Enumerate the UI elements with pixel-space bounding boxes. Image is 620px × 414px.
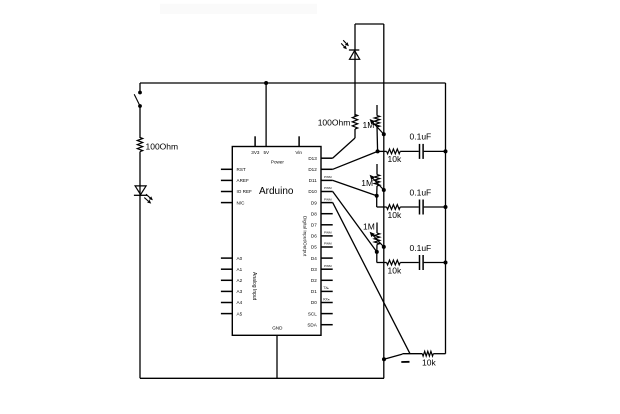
svg-text:D5: D5 [311,245,317,250]
svg-text:0.1uF: 0.1uF [410,243,432,253]
svg-text:10k: 10k [388,154,402,164]
svg-text:A2: A2 [237,278,243,283]
svg-text:1M: 1M [363,120,375,130]
svg-text:Analog Input: Analog Input [251,272,257,301]
svg-text:Power: Power [271,159,284,164]
svg-text:TX▸: TX▸ [323,286,329,290]
svg-text:AREF: AREF [237,178,249,183]
svg-text:D13: D13 [308,156,317,161]
svg-text:D8: D8 [311,211,317,216]
svg-text:PWM: PWM [324,186,332,190]
svg-text:PWM: PWM [324,175,332,179]
svg-text:A0: A0 [237,256,243,261]
svg-text:RX◂: RX◂ [323,297,329,301]
svg-text:SCL: SCL [308,311,317,316]
svg-text:5V: 5V [263,150,270,155]
svg-text:3V3: 3V3 [251,150,260,155]
svg-text:A3: A3 [237,289,243,294]
svg-text:10k: 10k [422,358,436,368]
svg-text:10k: 10k [388,266,402,276]
svg-text:A4: A4 [237,300,243,305]
svg-text:D4: D4 [311,256,317,261]
svg-text:PWM: PWM [324,264,332,268]
svg-text:D1: D1 [311,289,317,294]
svg-text:100Ohm: 100Ohm [318,117,351,127]
svg-text:PWM: PWM [324,231,332,235]
svg-text:GND: GND [272,325,283,330]
svg-text:1M: 1M [361,178,373,188]
svg-text:10k: 10k [388,210,402,220]
svg-text:Vin: Vin [295,150,302,155]
svg-text:A5: A5 [237,311,243,316]
svg-text:D0: D0 [311,300,317,305]
svg-text:SDA: SDA [307,322,317,327]
svg-text:100Ohm: 100Ohm [146,142,179,152]
svg-text:D10: D10 [308,189,317,194]
svg-text:D11: D11 [309,178,318,183]
svg-text:0.1uF: 0.1uF [410,187,432,197]
svg-text:PWM: PWM [324,197,332,201]
svg-text:D6: D6 [311,234,317,239]
svg-text:D3: D3 [311,267,317,272]
svg-text:Arduino: Arduino [259,186,294,197]
svg-text:0.1uF: 0.1uF [410,132,432,142]
svg-text:PWM: PWM [324,242,332,246]
svg-text:RST: RST [237,167,246,172]
svg-text:D9: D9 [311,200,317,205]
svg-text:N/C: N/C [237,200,246,205]
svg-text:Digital Input/Output: Digital Input/Output [302,216,307,257]
svg-text:1M: 1M [363,222,375,232]
svg-text:D2: D2 [311,278,317,283]
svg-text:A1: A1 [237,267,243,272]
svg-text:IO REF: IO REF [237,189,253,194]
svg-text:D7: D7 [311,223,317,228]
svg-text:D12: D12 [308,167,317,172]
